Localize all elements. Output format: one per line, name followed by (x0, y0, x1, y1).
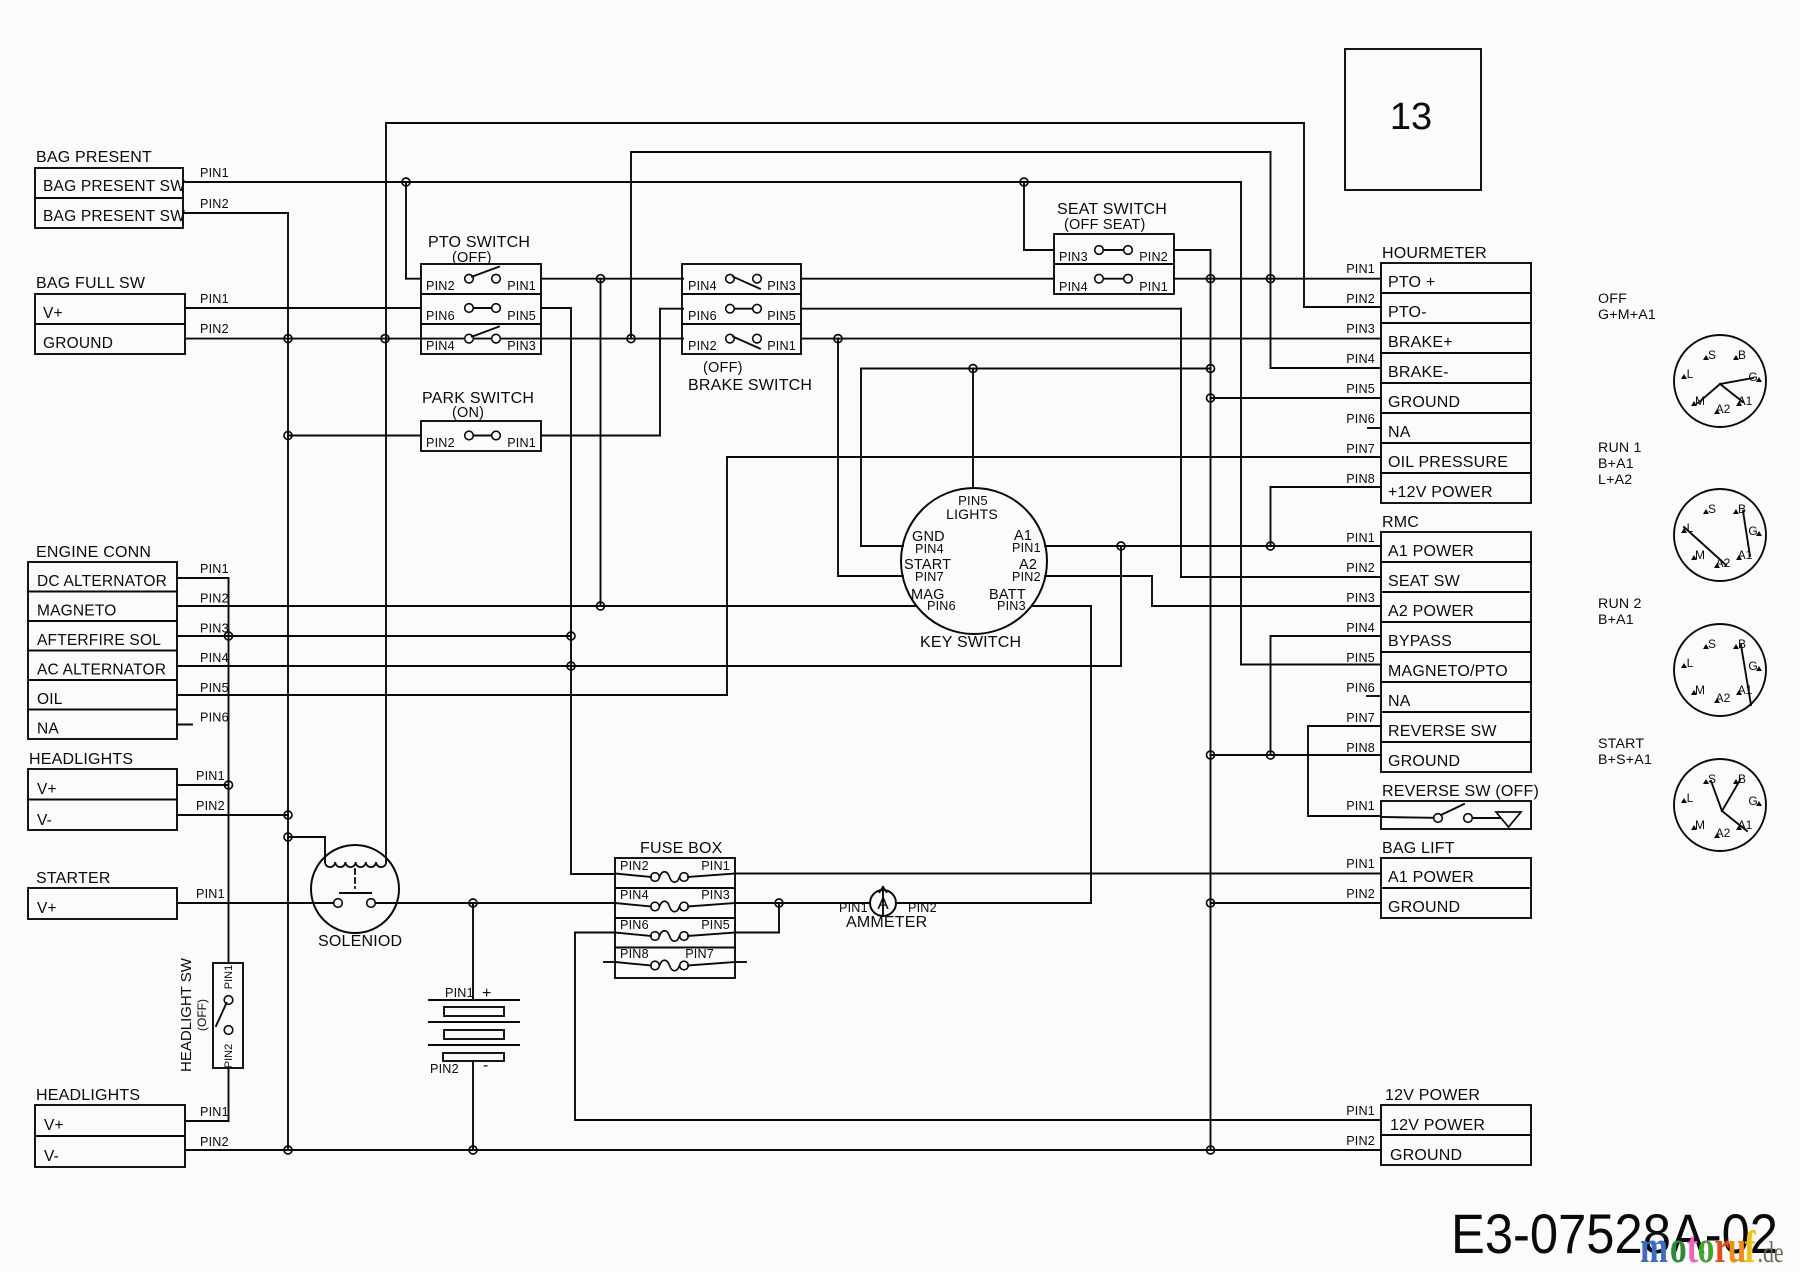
svg-text:PIN2: PIN2 (1346, 561, 1375, 575)
svg-text:AC ALTERNATOR: AC ALTERNATOR (37, 662, 166, 679)
svg-text:PIN5: PIN5 (767, 309, 796, 323)
svg-text:GROUND: GROUND (1388, 753, 1460, 770)
svg-text:13: 13 (1390, 96, 1432, 138)
svg-text:HEADLIGHTS: HEADLIGHTS (36, 1087, 140, 1104)
svg-text:u: u (1728, 1221, 1747, 1272)
svg-text:PIN4: PIN4 (1346, 352, 1375, 366)
svg-text:PIN1: PIN1 (839, 901, 868, 915)
svg-text:LIGHTS: LIGHTS (946, 506, 998, 522)
svg-text:PIN2: PIN2 (908, 901, 937, 915)
svg-text:m: m (1640, 1221, 1668, 1272)
svg-text:DC ALTERNATOR: DC ALTERNATOR (37, 573, 167, 590)
svg-text:PIN1: PIN1 (1346, 531, 1375, 545)
svg-text:PIN3: PIN3 (767, 279, 796, 293)
svg-text:M: M (1695, 548, 1705, 562)
svg-text:PIN2: PIN2 (688, 339, 717, 353)
svg-text:+12V POWER: +12V POWER (1388, 484, 1493, 501)
svg-text:PIN2: PIN2 (223, 1044, 235, 1068)
svg-text:SEAT SW: SEAT SW (1388, 573, 1461, 590)
svg-text:PIN5: PIN5 (1346, 651, 1375, 665)
svg-text:S: S (1708, 348, 1716, 362)
svg-text:B+A1: B+A1 (1598, 612, 1634, 628)
svg-text:GROUND: GROUND (1390, 1147, 1462, 1164)
svg-text:PIN7: PIN7 (1346, 711, 1375, 725)
svg-text:B: B (1738, 637, 1746, 651)
svg-text:o: o (1698, 1221, 1715, 1272)
svg-text:o: o (1670, 1221, 1687, 1272)
svg-text:L+A2: L+A2 (1598, 472, 1632, 488)
svg-text:(OFF SEAT): (OFF SEAT) (1064, 217, 1145, 233)
svg-text:PIN7: PIN7 (1346, 442, 1375, 456)
svg-text:AMMETER: AMMETER (846, 914, 927, 931)
svg-text:V+: V+ (44, 1117, 64, 1134)
svg-text:M: M (1695, 683, 1705, 697)
svg-text:PIN1: PIN1 (507, 436, 536, 450)
svg-text:L: L (1687, 656, 1694, 670)
svg-text:PIN2: PIN2 (1139, 250, 1168, 264)
svg-text:A1: A1 (1738, 548, 1753, 562)
svg-text:OIL: OIL (37, 691, 63, 708)
svg-text:B: B (1738, 772, 1746, 786)
svg-text:PIN6: PIN6 (200, 711, 229, 725)
svg-text:(OFF): (OFF) (703, 360, 743, 376)
svg-text:A1 POWER: A1 POWER (1388, 869, 1474, 886)
svg-text:SOLENIOD: SOLENIOD (318, 933, 402, 950)
svg-text:PIN2: PIN2 (196, 799, 225, 813)
svg-text:START: START (1598, 736, 1644, 752)
svg-text:GROUND: GROUND (1388, 394, 1460, 411)
svg-text:PIN5: PIN5 (507, 309, 536, 323)
svg-text:B+A1: B+A1 (1598, 456, 1634, 472)
svg-text:V-: V- (44, 1148, 59, 1165)
svg-text:PIN5: PIN5 (200, 681, 229, 695)
svg-text:PIN6: PIN6 (688, 309, 717, 323)
svg-text:PTO-: PTO- (1388, 304, 1427, 321)
svg-text:G: G (1748, 370, 1757, 384)
svg-text:PIN2: PIN2 (1012, 570, 1041, 584)
svg-text:PIN1: PIN1 (200, 1105, 229, 1119)
svg-text:B+S+A1: B+S+A1 (1598, 752, 1652, 768)
svg-text:PIN6: PIN6 (620, 918, 649, 932)
svg-text:BYPASS: BYPASS (1388, 633, 1452, 650)
svg-text:A1: A1 (1738, 818, 1753, 832)
svg-text:NA: NA (1388, 693, 1411, 710)
svg-text:A1: A1 (1738, 394, 1753, 408)
svg-text:HOURMETER: HOURMETER (1382, 245, 1487, 262)
svg-text:PIN1: PIN1 (1346, 799, 1375, 813)
svg-text:PIN2: PIN2 (200, 197, 229, 211)
svg-text:V-: V- (37, 812, 52, 829)
svg-text:PIN6: PIN6 (1346, 412, 1375, 426)
svg-text:BAG PRESENT SW: BAG PRESENT SW (43, 178, 185, 195)
svg-text:L: L (1687, 521, 1694, 535)
svg-text:HEADLIGHT SW: HEADLIGHT SW (178, 957, 195, 1072)
svg-text:PIN4: PIN4 (620, 888, 649, 902)
svg-text:PIN1: PIN1 (507, 279, 536, 293)
svg-text:PIN4: PIN4 (200, 651, 229, 665)
svg-text:PIN6: PIN6 (1346, 681, 1375, 695)
svg-text:PIN3: PIN3 (1059, 250, 1088, 264)
svg-text:12V POWER: 12V POWER (1390, 1117, 1485, 1134)
svg-text:PIN4: PIN4 (1346, 621, 1375, 635)
svg-text:A2 POWER: A2 POWER (1388, 603, 1474, 620)
svg-text:PIN3: PIN3 (997, 599, 1026, 613)
svg-text:A2: A2 (1716, 556, 1731, 570)
svg-text:OFF: OFF (1598, 291, 1627, 307)
svg-text:V+: V+ (37, 900, 57, 917)
svg-text:.de: .de (1758, 1236, 1784, 1269)
svg-text:PIN7: PIN7 (915, 570, 944, 584)
svg-text:PIN1: PIN1 (1346, 262, 1375, 276)
svg-text:PIN8: PIN8 (1346, 472, 1375, 486)
svg-text:+: + (482, 985, 492, 1002)
svg-text:PIN1: PIN1 (196, 769, 225, 783)
svg-text:PIN2: PIN2 (200, 322, 229, 336)
svg-text:PIN3: PIN3 (701, 888, 730, 902)
svg-text:PIN1: PIN1 (200, 562, 229, 576)
svg-text:A1: A1 (1738, 683, 1753, 697)
svg-text:SEAT SWITCH: SEAT SWITCH (1057, 201, 1167, 218)
svg-text:B: B (1738, 502, 1746, 516)
svg-text:PIN1: PIN1 (196, 887, 225, 901)
svg-text:PIN3: PIN3 (1346, 591, 1375, 605)
svg-text:PIN1: PIN1 (1346, 1104, 1375, 1118)
svg-text:RUN 1: RUN 1 (1598, 440, 1642, 456)
svg-text:PIN2: PIN2 (1346, 887, 1375, 901)
svg-text:PIN2: PIN2 (200, 592, 229, 606)
svg-text:PIN6: PIN6 (426, 309, 455, 323)
svg-text:PIN2: PIN2 (1346, 1134, 1375, 1148)
svg-text:PTO SWITCH: PTO SWITCH (428, 234, 530, 251)
svg-text:L: L (1687, 791, 1694, 805)
svg-text:BAG PRESENT SW: BAG PRESENT SW (43, 208, 185, 225)
svg-text:PIN5: PIN5 (1346, 382, 1375, 396)
svg-text:B: B (1738, 348, 1746, 362)
svg-text:PIN2: PIN2 (426, 279, 455, 293)
svg-text:PIN1: PIN1 (1346, 857, 1375, 871)
svg-text:GROUND: GROUND (43, 335, 113, 352)
svg-text:BRAKE+: BRAKE+ (1388, 334, 1453, 351)
svg-text:A2: A2 (1716, 826, 1731, 840)
svg-text:PIN2: PIN2 (620, 859, 649, 873)
svg-text:PIN2: PIN2 (430, 1062, 459, 1076)
svg-text:(ON): (ON) (452, 405, 484, 421)
svg-text:PIN1: PIN1 (1139, 280, 1168, 294)
svg-text:OIL PRESSURE: OIL PRESSURE (1388, 454, 1508, 471)
svg-text:PIN3: PIN3 (507, 339, 536, 353)
svg-text:-: - (483, 1057, 489, 1074)
svg-text:REVERSE SW (OFF): REVERSE SW (OFF) (1382, 783, 1539, 800)
svg-text:PIN2: PIN2 (200, 1135, 229, 1149)
svg-text:12V POWER: 12V POWER (1385, 1087, 1480, 1104)
svg-text:M: M (1695, 394, 1705, 408)
svg-text:A2: A2 (1716, 402, 1731, 416)
svg-text:PIN3: PIN3 (200, 621, 229, 635)
svg-text:PIN4: PIN4 (426, 339, 455, 353)
svg-text:PIN8: PIN8 (620, 947, 649, 961)
svg-text:PIN4: PIN4 (1059, 280, 1088, 294)
svg-text:PIN5: PIN5 (701, 918, 730, 932)
svg-text:M: M (1695, 818, 1705, 832)
svg-text:L: L (1687, 367, 1694, 381)
svg-text:AFTERFIRE SOL: AFTERFIRE SOL (37, 632, 161, 649)
svg-text:G: G (1748, 794, 1757, 808)
svg-text:PIN2: PIN2 (426, 436, 455, 450)
svg-text:STARTER: STARTER (36, 870, 111, 887)
svg-text:MAGNETO: MAGNETO (37, 603, 116, 620)
svg-text:(OFF): (OFF) (195, 999, 209, 1031)
svg-text:PIN6: PIN6 (927, 599, 956, 613)
svg-text:BAG LIFT: BAG LIFT (1382, 840, 1455, 857)
svg-text:PIN8: PIN8 (1346, 741, 1375, 755)
svg-text:BRAKE-: BRAKE- (1388, 364, 1449, 381)
svg-text:A: A (877, 894, 889, 913)
svg-text:PIN1: PIN1 (223, 965, 235, 989)
svg-text:A1 POWER: A1 POWER (1388, 543, 1474, 560)
svg-text:FUSE BOX: FUSE BOX (640, 840, 723, 857)
svg-text:V+: V+ (37, 781, 57, 798)
svg-text:PIN3: PIN3 (1346, 322, 1375, 336)
svg-text:S: S (1708, 772, 1716, 786)
svg-text:PIN1: PIN1 (767, 339, 796, 353)
svg-text:PIN1: PIN1 (200, 292, 229, 306)
svg-text:PIN4: PIN4 (915, 542, 944, 556)
svg-text:PIN1: PIN1 (200, 166, 229, 180)
svg-text:RMC: RMC (1382, 514, 1419, 531)
svg-text:S: S (1708, 502, 1716, 516)
svg-text:MAGNETO/PTO: MAGNETO/PTO (1388, 663, 1508, 680)
svg-text:G+M+A1: G+M+A1 (1598, 307, 1656, 323)
svg-text:G: G (1748, 524, 1757, 538)
svg-text:PIN1: PIN1 (701, 859, 730, 873)
svg-text:PIN1: PIN1 (1012, 541, 1041, 555)
svg-text:GROUND: GROUND (1388, 899, 1460, 916)
svg-text:BRAKE SWITCH: BRAKE SWITCH (688, 377, 812, 394)
svg-text:t: t (1687, 1221, 1699, 1272)
svg-text:KEY SWITCH: KEY SWITCH (920, 634, 1021, 651)
svg-text:PIN2: PIN2 (1346, 292, 1375, 306)
svg-text:PIN7: PIN7 (685, 947, 714, 961)
svg-text:REVERSE SW: REVERSE SW (1388, 723, 1497, 740)
svg-text:RUN 2: RUN 2 (1598, 596, 1642, 612)
svg-text:PIN1: PIN1 (445, 986, 474, 1000)
svg-text:(OFF): (OFF) (452, 250, 492, 266)
svg-text:A2: A2 (1716, 691, 1731, 705)
svg-text:S: S (1708, 637, 1716, 651)
svg-text:BAG FULL SW: BAG FULL SW (36, 275, 146, 292)
svg-text:PIN4: PIN4 (688, 279, 717, 293)
svg-text:f: f (1744, 1221, 1756, 1272)
svg-text:ENGINE CONN: ENGINE CONN (36, 544, 151, 561)
svg-text:G: G (1748, 659, 1757, 673)
svg-text:BAG PRESENT: BAG PRESENT (36, 149, 152, 166)
svg-text:NA: NA (1388, 424, 1411, 441)
svg-text:NA: NA (37, 721, 59, 738)
svg-text:PTO +: PTO + (1388, 274, 1435, 291)
svg-text:V+: V+ (43, 305, 63, 322)
svg-text:HEADLIGHTS: HEADLIGHTS (29, 751, 133, 768)
